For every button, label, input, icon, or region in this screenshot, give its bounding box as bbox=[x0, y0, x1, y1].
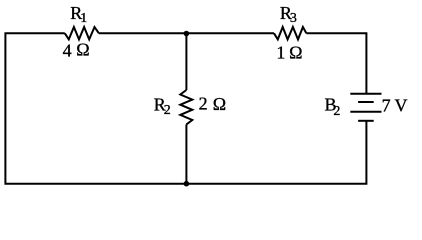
svg-text:Ω: Ω bbox=[76, 40, 89, 60]
svg-text:4: 4 bbox=[63, 41, 72, 61]
svg-text:3: 3 bbox=[290, 11, 297, 26]
wire right-bottom-left loop bbox=[5, 33, 366, 183]
svg-text:V: V bbox=[395, 95, 408, 115]
svg-text:Ω: Ω bbox=[213, 94, 226, 114]
resistor R3 bbox=[274, 27, 306, 39]
wire top-right corner down to battery bbox=[306, 33, 366, 94]
node junction bottom bbox=[184, 181, 190, 187]
svg-text:2: 2 bbox=[164, 103, 171, 118]
battery B2 plate short upper bbox=[358, 101, 374, 103]
battery B2 plate short bottom bbox=[358, 120, 374, 122]
svg-text:2: 2 bbox=[199, 94, 208, 114]
node junction top bbox=[184, 31, 190, 37]
battery B2 plate long top bbox=[350, 93, 381, 95]
wire middle lower (from R2) bbox=[185, 124, 187, 183]
svg-text:Ω: Ω bbox=[289, 42, 302, 62]
wire middle upper (to R2) bbox=[185, 32, 187, 90]
svg-text:1: 1 bbox=[276, 42, 285, 62]
svg-text:1: 1 bbox=[80, 11, 87, 26]
wire top-middle segment bbox=[99, 32, 274, 34]
svg-text:2: 2 bbox=[333, 104, 340, 119]
battery B2 plate long lower bbox=[350, 111, 381, 113]
svg-text:7: 7 bbox=[382, 95, 391, 115]
resistor R2 bbox=[180, 90, 192, 124]
resistor R1 bbox=[65, 27, 99, 39]
